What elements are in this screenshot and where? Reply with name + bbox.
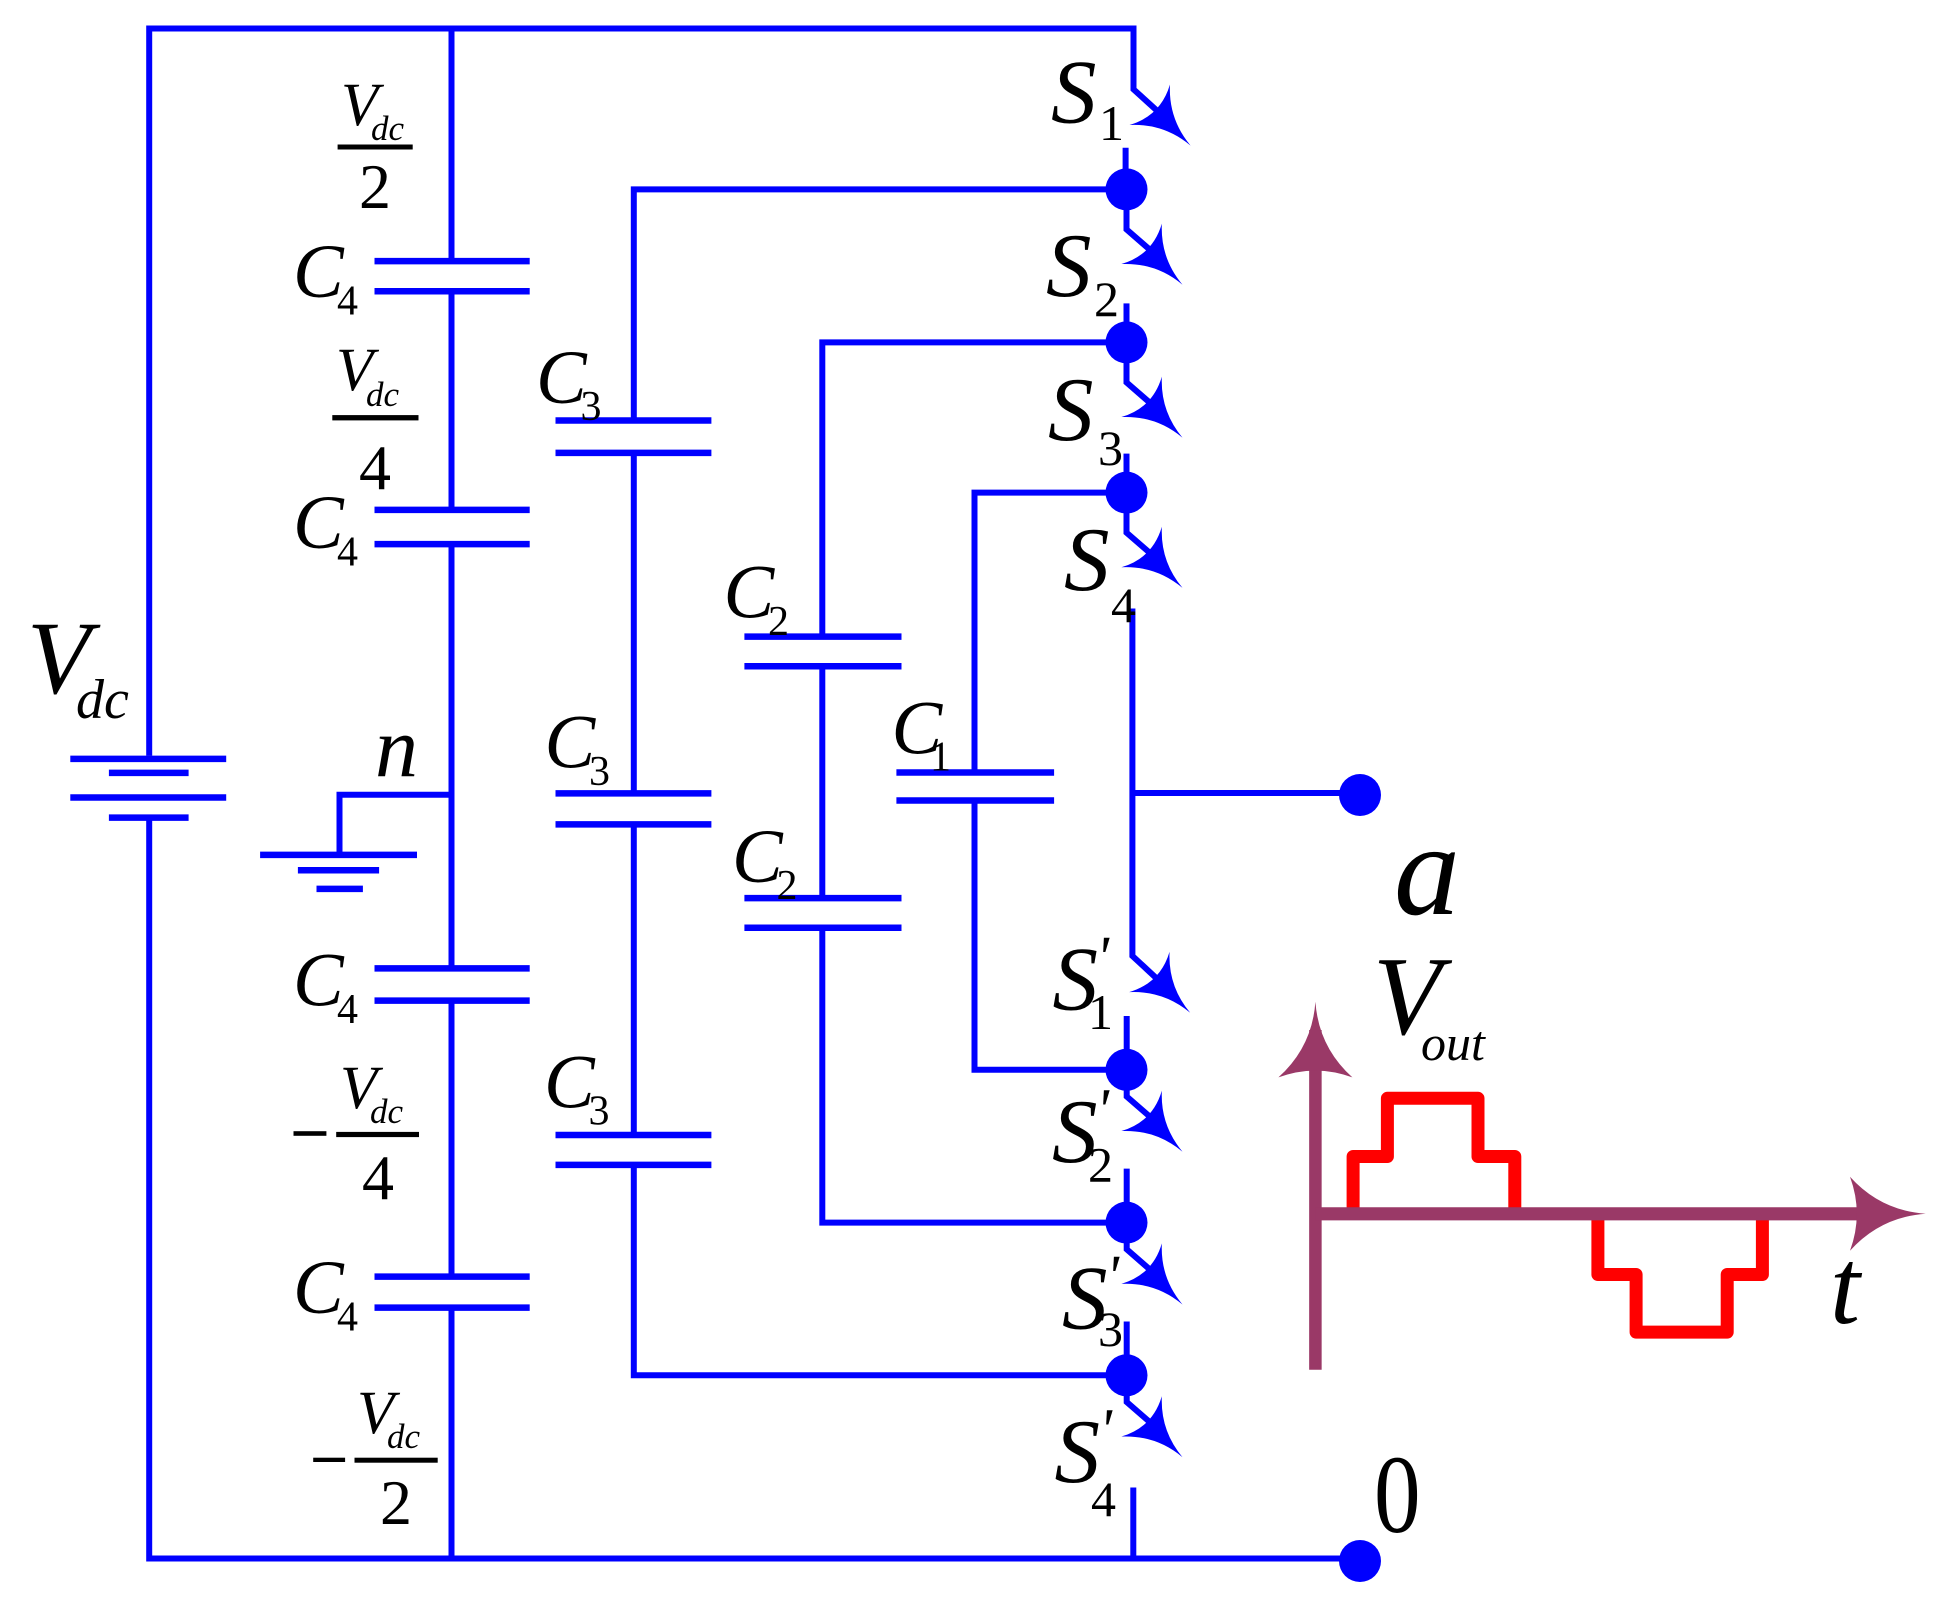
wire: S4 to S1p vertical and S1p blade	[1132, 609, 1160, 982]
wire: C3 column seg2	[631, 453, 637, 794]
wire: C3 top connector	[634, 189, 1127, 420]
svg-text:4: 4	[362, 1142, 394, 1213]
stub below node3 and S4 blade	[1127, 493, 1158, 559]
svg-text:2: 2	[1094, 271, 1119, 327]
svg-text:2: 2	[777, 863, 798, 909]
node 0 terminal dot	[1339, 1540, 1381, 1582]
svg-text:4: 4	[337, 987, 358, 1033]
label 0	[1374, 1435, 1421, 1557]
svg-text:0: 0	[1374, 1435, 1421, 1557]
svg-text:4: 4	[359, 432, 391, 503]
svg-text:dc: dc	[366, 375, 400, 414]
wire: C1 top connector	[975, 493, 1127, 773]
svg-text:4: 4	[337, 1294, 358, 1340]
svg-text:1: 1	[1099, 95, 1124, 151]
stub below node2p and S3p blade	[1127, 1223, 1157, 1276]
stub above node3	[1124, 454, 1130, 493]
svg-text:3: 3	[589, 749, 610, 795]
wire: C3 bottom connector	[634, 1165, 1127, 1375]
switch S3p arrowhead	[1121, 1243, 1202, 1324]
wire: C3 column seg3	[631, 824, 637, 1135]
svg-text:': '	[1106, 1243, 1120, 1309]
capacitor C4 (bottom, -Vdc/2)	[375, 1273, 530, 1280]
node dot S1p-S2p	[1106, 1049, 1148, 1091]
node dot S1-S2	[1106, 168, 1148, 210]
ground symbol	[260, 852, 417, 859]
stub below node2 and S3 blade	[1127, 342, 1158, 409]
capacitor C4 (second, Vdc/4)	[375, 507, 530, 514]
svg-text:dc: dc	[387, 1417, 421, 1456]
svg-text:4: 4	[337, 530, 358, 576]
wire: C4 bus seg4	[449, 1001, 455, 1277]
svg-text:2: 2	[359, 151, 391, 222]
Vout staircase waveform	[1353, 1098, 1762, 1332]
svg-text:S: S	[1064, 509, 1110, 610]
node dot S3-S4	[1106, 472, 1148, 514]
svg-text:2: 2	[768, 599, 789, 645]
label -Vdc/4	[294, 1131, 327, 1136]
switch S1 arrowhead	[1130, 85, 1211, 166]
Vout axis (vertical)	[1309, 1030, 1322, 1370]
svg-text:S: S	[1051, 42, 1097, 143]
svg-text:dc: dc	[76, 669, 129, 731]
switch S2 arrowhead	[1121, 224, 1202, 305]
capacitor C1	[896, 769, 1054, 776]
capacitor C3 (bottom)	[556, 1132, 712, 1139]
stub above node1p	[1124, 1016, 1130, 1070]
t axis arrowhead right	[1850, 1177, 1926, 1251]
svg-text:': '	[1096, 925, 1110, 991]
wire: C4 bus seg3	[449, 544, 455, 968]
capacitor C3 (middle)	[556, 790, 712, 797]
wire: C2 bottom connector	[822, 928, 1126, 1223]
svg-text:out: out	[1421, 1015, 1486, 1071]
capacitor C2 (bottom)	[744, 895, 901, 902]
stub below node1 and S2 blade	[1127, 189, 1158, 256]
stub above node2	[1124, 303, 1130, 342]
switch S4 arrowhead	[1121, 527, 1202, 608]
Vout axis arrowhead up	[1278, 1002, 1352, 1078]
stub above node2p	[1124, 1169, 1130, 1223]
wire: output a	[1132, 790, 1348, 796]
svg-text:4: 4	[1111, 577, 1136, 633]
stub above node3p	[1124, 1322, 1130, 1376]
wire: C2 top connector	[822, 342, 1126, 636]
capacitor C4 (third, -Vdc/4)	[375, 965, 530, 972]
capacitor C2 (top)	[744, 633, 901, 640]
node dot S2p-S3p	[1106, 1202, 1148, 1244]
wire: top bus and left rail upper	[149, 29, 1162, 756]
capacitor C4 (top, Vdc/2)	[375, 258, 530, 265]
label -Vdc/2	[313, 1458, 345, 1462]
switch S2p arrowhead	[1121, 1091, 1202, 1172]
svg-text:4: 4	[1091, 1471, 1116, 1527]
switch S3 arrowhead	[1121, 377, 1202, 458]
svg-text:S: S	[1046, 215, 1092, 316]
svg-text:a: a	[1394, 796, 1460, 943]
svg-text:3: 3	[581, 384, 602, 430]
svg-text:3: 3	[1098, 420, 1123, 476]
switch S1p arrowhead	[1129, 952, 1210, 1033]
svg-text:dc: dc	[371, 109, 405, 148]
wire: left rail lower and bottom bus	[149, 818, 1348, 1559]
svg-text:n: n	[375, 699, 418, 795]
wire: C4 bus seg5	[449, 1308, 455, 1559]
svg-text:': '	[1096, 1077, 1110, 1143]
svg-text:3: 3	[589, 1089, 610, 1135]
stub below node1p and S2p blade	[1127, 1070, 1157, 1123]
battery Vdc	[70, 756, 226, 763]
wire: S4p bottom stub	[1130, 1488, 1136, 1559]
svg-text:t: t	[1830, 1228, 1863, 1347]
wire: C2 column seg2	[819, 666, 825, 898]
svg-text:4: 4	[337, 279, 358, 325]
node dot S3p-S4p	[1106, 1354, 1148, 1396]
svg-text:S: S	[1048, 359, 1094, 460]
switch S4p arrowhead	[1121, 1396, 1202, 1477]
svg-text:': '	[1099, 1397, 1113, 1463]
svg-text:1: 1	[1088, 984, 1113, 1040]
svg-text:dc: dc	[370, 1092, 404, 1131]
wire: C4 bus seg1	[449, 26, 455, 262]
t axis (horizontal)	[1315, 1207, 1866, 1220]
svg-text:2: 2	[380, 1467, 412, 1538]
node a terminal dot	[1339, 774, 1381, 816]
wire: C4 bus seg2	[449, 291, 455, 510]
wire: C1 bottom connector	[975, 801, 1127, 1070]
stub above S1 lower node	[1123, 148, 1129, 190]
node dot S2-S3	[1106, 321, 1148, 363]
stub below node3p and S4p blade	[1127, 1375, 1157, 1428]
capacitor C3 (top)	[556, 417, 712, 424]
node n wire and ground lead	[340, 795, 452, 855]
svg-text:2: 2	[1088, 1137, 1113, 1193]
svg-text:1: 1	[930, 735, 951, 781]
